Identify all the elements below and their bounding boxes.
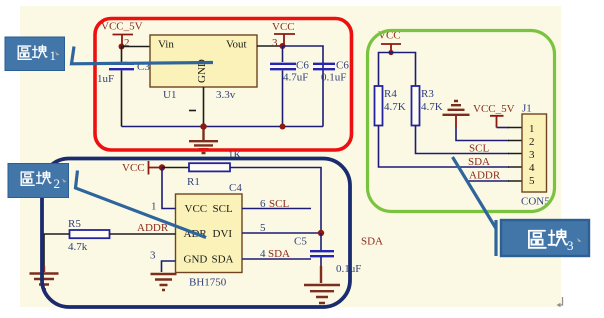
wire to R1 <box>162 167 189 169</box>
svg-text:VCC: VCC <box>272 21 295 33</box>
svg-text:SDA: SDA <box>361 236 383 248</box>
C5 lower stem <box>320 257 322 266</box>
svg-text:VCC: VCC <box>185 203 208 215</box>
pin 5 wire <box>242 232 321 234</box>
svg-text:R3: R3 <box>421 88 434 100</box>
svg-text:SDA: SDA <box>468 156 490 168</box>
callout box 2 <box>8 164 69 198</box>
resistor R5 <box>70 230 110 238</box>
capacitor C6 first <box>270 64 296 69</box>
svg-text:DVI: DVI <box>213 228 233 240</box>
callout leader 2 <box>76 171 207 238</box>
svg-text:VCC_5V: VCC_5V <box>473 103 515 115</box>
svg-text:ADDR: ADDR <box>137 222 169 234</box>
glyph 區 box3 <box>529 231 546 248</box>
R4 wire to pin4 row <box>379 126 510 168</box>
glyph 區 box2 <box>21 172 34 185</box>
power bar VCC_5V <box>490 116 504 128</box>
svg-text:SCL: SCL <box>213 203 233 215</box>
svg-text:1: 1 <box>151 201 157 213</box>
power bar VCC <box>381 44 401 53</box>
connector J1 body <box>522 114 547 192</box>
svg-text:VCC: VCC <box>122 162 145 174</box>
glyph 塊 box1 <box>33 45 47 58</box>
Vout pin wire <box>257 45 283 47</box>
junction dot <box>159 164 165 170</box>
wire to Vin <box>122 46 151 48</box>
R5 right wire <box>110 233 176 235</box>
svg-text:SCL: SCL <box>269 198 289 210</box>
svg-text:1uF: 1uF <box>97 73 114 85</box>
svg-text:4.7k: 4.7k <box>68 241 88 253</box>
pin 6 wire <box>242 208 311 210</box>
svg-text:5: 5 <box>260 222 266 234</box>
svg-text:3: 3 <box>567 238 574 253</box>
chip BH1750 body <box>176 194 243 273</box>
power bar VCC_5V <box>113 35 134 47</box>
svg-text:BH1750: BH1750 <box>189 277 227 289</box>
connector J1 pins <box>508 128 522 182</box>
svg-text:4.7K: 4.7K <box>384 101 406 113</box>
svg-text:VCC_5V: VCC_5V <box>101 21 143 33</box>
wire down to C3 <box>121 47 123 63</box>
U1 GND pin stem <box>203 87 205 127</box>
power bar VCC <box>274 34 295 45</box>
C6 first lower stem <box>282 71 284 127</box>
svg-text:C5: C5 <box>294 236 307 248</box>
svg-text:J1: J1 <box>522 103 532 115</box>
svg-text:6: 6 <box>260 198 266 210</box>
power bar VCC sideways <box>149 161 162 175</box>
resistor R4 <box>375 86 383 126</box>
callout box 1 <box>5 37 65 71</box>
svg-text:R5: R5 <box>68 218 81 230</box>
ground symbol AGND <box>443 101 470 115</box>
mini cursor box3 <box>577 238 582 242</box>
svg-text:4.7uF: 4.7uF <box>283 72 308 84</box>
svg-text:3: 3 <box>272 37 278 49</box>
junction dot <box>388 50 393 55</box>
bottom rail wire <box>122 126 324 128</box>
svg-text:GND: GND <box>184 254 208 266</box>
resistor R1 <box>189 163 230 171</box>
pin 4 wire <box>242 258 311 260</box>
capacitor C6 second <box>313 64 335 69</box>
callout leader 1 <box>72 47 214 64</box>
wire R1 to corner <box>230 168 321 234</box>
pin 3 wire <box>162 261 176 272</box>
svg-text:1: 1 <box>529 123 535 135</box>
svg-text:5: 5 <box>529 175 535 187</box>
callout box 3 <box>501 220 589 256</box>
svg-text:3.3v: 3.3v <box>216 89 236 101</box>
junction dot C5 <box>318 230 324 236</box>
svg-text:SDA: SDA <box>268 248 290 260</box>
capacitor C5 <box>320 233 322 250</box>
svg-text:3: 3 <box>150 250 156 262</box>
pin 1 wire <box>162 168 176 209</box>
AGND wire to pin2 <box>456 127 509 141</box>
svg-text:4: 4 <box>260 248 266 260</box>
ground symbol below U1 <box>189 129 218 153</box>
ground symbol R5 <box>30 266 59 290</box>
callout leader 3 diagonal <box>453 157 497 229</box>
resistor R3 <box>412 86 420 126</box>
junction dot at GND <box>200 123 206 129</box>
mini cursor box2 <box>62 179 67 183</box>
pin dash mark <box>189 110 196 112</box>
svg-text:4: 4 <box>529 162 535 174</box>
svg-text:3: 3 <box>529 149 535 161</box>
svg-text:ADDR: ADDR <box>469 170 501 182</box>
svg-text:2: 2 <box>529 136 535 148</box>
svg-text:R1: R1 <box>187 176 200 188</box>
svg-text:2: 2 <box>54 176 61 191</box>
C3 lower stem <box>121 71 123 127</box>
ground symbol C5 <box>304 285 340 303</box>
svg-text:SCL: SCL <box>469 143 489 155</box>
svg-text:U1: U1 <box>163 89 176 101</box>
glyph 塊 box2 <box>37 171 51 184</box>
svg-text:1: 1 <box>50 48 57 63</box>
junction dot <box>119 44 125 50</box>
svg-text:0.1uF: 0.1uF <box>321 72 346 84</box>
R5 left wire <box>44 234 70 266</box>
capacitor C3 <box>109 64 134 69</box>
green region border 3 <box>368 31 555 212</box>
glyph 塊 box3 <box>549 229 568 245</box>
junction dot Vout <box>280 43 286 49</box>
top wire R4 R3 <box>379 53 416 87</box>
junction dot bottom <box>280 124 286 130</box>
svg-text:R4: R4 <box>384 88 397 100</box>
regulator U1 body <box>150 35 257 87</box>
svg-text:C6: C6 <box>296 60 309 72</box>
svg-text:C6: C6 <box>336 60 349 72</box>
mouse cursor bottom right <box>558 297 563 305</box>
ground symbol pin3 <box>151 274 177 290</box>
svg-text:4.7K: 4.7K <box>421 101 443 113</box>
wire to pin1 <box>497 127 510 129</box>
svg-text:C4: C4 <box>229 182 242 194</box>
ADDR wire to pin5 <box>467 180 509 182</box>
callout leader 3 vertical tick <box>494 220 497 256</box>
R3 wire to pin3 row <box>416 126 510 154</box>
red region border 1 <box>95 19 352 151</box>
mini cursor box1 <box>55 52 60 56</box>
capacitor C6 first stem <box>282 46 284 62</box>
svg-text:Vin: Vin <box>158 39 174 51</box>
wire VCC node right <box>283 46 324 127</box>
svg-text:Vout: Vout <box>226 39 247 51</box>
glyph 區 box1 <box>18 46 31 59</box>
svg-text:SDA: SDA <box>212 254 234 266</box>
navy region border 2 <box>42 159 350 308</box>
